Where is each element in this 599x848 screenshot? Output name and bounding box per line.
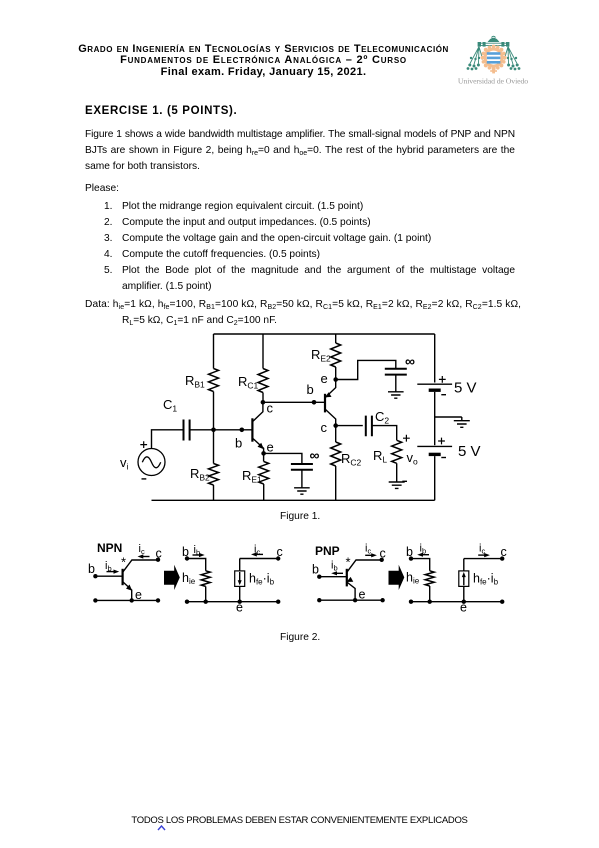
wire top rail [214, 333, 435, 335]
svg-text:b: b [307, 382, 314, 397]
junction dots PNP rail [317, 598, 321, 602]
data [85, 299, 521, 310]
ground under CE1 [294, 488, 310, 494]
svg-text:b: b [406, 545, 413, 559]
header line 2 [0, 54, 527, 66]
footer [0, 815, 599, 826]
svg-text:c: c [380, 547, 386, 561]
transistor Q1 NPN [235, 401, 274, 455]
resistor RC1 [238, 334, 268, 402]
node b PNP [317, 575, 321, 579]
svg-text:b: b [235, 436, 242, 451]
svg-text:b: b [88, 562, 95, 576]
current ic arrow PNP [365, 543, 377, 558]
transistor Q2 PNP [307, 371, 336, 435]
Figure 1 circuit schematic [0, 330, 599, 530]
resistor RB1 [185, 334, 219, 430]
header line 1 [0, 43, 527, 55]
current ib arrow NPN model [193, 544, 205, 557]
svg-text:hfe·ib: hfe·ib [249, 572, 275, 587]
svg-text:∞: ∞ [405, 353, 415, 369]
svg-text:RE1: RE1 [242, 468, 262, 485]
svg-text:*: * [346, 555, 351, 570]
node b NPN model [185, 556, 189, 560]
ground mid-right [435, 417, 470, 427]
junction dots NPN model rail [185, 600, 189, 604]
bottom rail PNP model [411, 601, 502, 603]
resistor RL [373, 435, 418, 482]
node c NPN [156, 558, 160, 562]
svg-text:e: e [321, 371, 328, 386]
battery V2 5V [417, 438, 480, 460]
current source hfe ib PNP model [459, 559, 499, 602]
node at RB1/RB2 [211, 428, 216, 433]
svg-text:Universidad de Oviedo: Universidad de Oviedo [458, 77, 528, 86]
wire base NPN [95, 575, 122, 577]
svg-text:e: e [460, 601, 467, 615]
battery V1 5V [417, 376, 476, 397]
svg-text:hie: hie [182, 571, 196, 586]
capacitor C2 [366, 409, 390, 436]
svg-text:NPN: NPN [97, 541, 122, 555]
svg-text:c: c [501, 545, 507, 559]
svg-text:RB2: RB2 [190, 466, 210, 483]
resistor RE1 [242, 453, 269, 500]
svg-text:ic: ic [365, 543, 371, 556]
svg-text:PNP: PNP [315, 544, 340, 558]
svg-text:ic: ic [139, 543, 145, 556]
bottom rail NPN model [187, 601, 278, 603]
node b PNP model [409, 556, 413, 560]
bottom rail PNP [319, 599, 382, 601]
svg-text:*: * [121, 555, 126, 570]
current ic arrow PNP model [478, 543, 490, 558]
resistor hie NPN model [182, 571, 210, 602]
bottom rail NPN [95, 599, 158, 601]
svg-text:RC1: RC1 [238, 374, 259, 391]
junction dots PNP model rail [409, 600, 413, 604]
capacitor C1 [163, 397, 190, 441]
capacitor CE2 infinite [385, 353, 415, 392]
resistor RC2 [331, 426, 362, 501]
wire b to hie [187, 559, 206, 571]
svg-text:RB1: RB1 [185, 373, 205, 390]
resistor RB2 [190, 430, 219, 501]
current ic arrow NPN model [251, 544, 263, 557]
transistor NPN symbol [121, 555, 158, 601]
wire c1 to b2 [263, 401, 325, 403]
big arrow 1 [164, 565, 180, 590]
node c PNP model [500, 556, 504, 560]
svg-text:vi: vi [120, 455, 129, 472]
wire source to c PNP model [464, 558, 502, 560]
svg-text:e: e [267, 440, 274, 455]
list [104, 201, 113, 212]
current ib arrow PNP model [417, 543, 429, 557]
big arrow 2 [389, 565, 405, 590]
wire c2 to C2 [336, 425, 363, 427]
wire right rail top [434, 334, 436, 383]
wire bottom rail [152, 499, 435, 501]
resistor hie PNP model [406, 571, 434, 602]
ground under CE2 [388, 392, 404, 398]
wire e2 to bypass cap CE2 [336, 360, 396, 379]
node c NPN model [276, 556, 280, 560]
svg-text:C2: C2 [375, 409, 389, 426]
svg-text:hfe·ib: hfe·ib [473, 572, 499, 587]
svg-text:RE2: RE2 [311, 347, 331, 364]
current ib arrow PNP [331, 560, 343, 576]
node c2 [333, 423, 338, 428]
resistor RE2 [311, 334, 341, 380]
source vi [120, 441, 165, 479]
svg-text:c: c [321, 420, 328, 435]
ground under RL [389, 482, 405, 488]
node c1 [261, 400, 266, 405]
current ic arrow NPN [138, 543, 150, 559]
svg-text:5 V: 5 V [458, 443, 481, 460]
svg-text:5 V: 5 V [454, 380, 477, 397]
wire C2 to RL [372, 426, 397, 441]
wire between batteries [434, 392, 436, 445]
header line 3 [0, 66, 527, 78]
svg-text:c: c [277, 545, 283, 559]
svg-text:b: b [182, 545, 189, 559]
node b2 [312, 400, 317, 405]
svg-text:ib: ib [331, 560, 338, 573]
svg-text:RC2: RC2 [341, 451, 362, 468]
captions [280, 511, 320, 522]
wire source to c NPN model [240, 558, 279, 560]
svg-text:RL: RL [373, 448, 387, 465]
svg-text:vo: vo [407, 450, 419, 467]
node c PNP [380, 558, 384, 562]
svg-text:c: c [156, 547, 162, 561]
current ib arrow NPN [105, 560, 119, 574]
node e1 [261, 451, 266, 456]
logo Universidad de Oviedo [455, 27, 530, 87]
exercise title [85, 105, 237, 117]
svg-text:hie: hie [406, 571, 420, 586]
wire e1 to bypass cap [264, 453, 302, 464]
wire b to hie PNP model [411, 559, 430, 571]
node b NPN [93, 574, 97, 578]
capacitor CE1 infinite [291, 447, 320, 488]
svg-text:∞: ∞ [310, 447, 320, 463]
current source hfe ib NPN model [235, 559, 275, 602]
wire base PNP [319, 576, 347, 578]
svg-text:b: b [312, 563, 319, 577]
svg-text:C1: C1 [163, 397, 177, 414]
wire C1 to base node [190, 429, 253, 431]
wire right rail bottom [434, 456, 436, 500]
Figure 2 transistor models [0, 535, 599, 620]
node b1 [240, 428, 245, 433]
paragraph 1 [85, 127, 515, 143]
wire vi top [152, 430, 184, 449]
transistor PNP symbol [346, 555, 382, 601]
junction dots NPN rail [93, 598, 97, 602]
node e2 [333, 377, 338, 382]
svg-text:e: e [236, 601, 243, 615]
svg-text:e: e [359, 588, 366, 602]
